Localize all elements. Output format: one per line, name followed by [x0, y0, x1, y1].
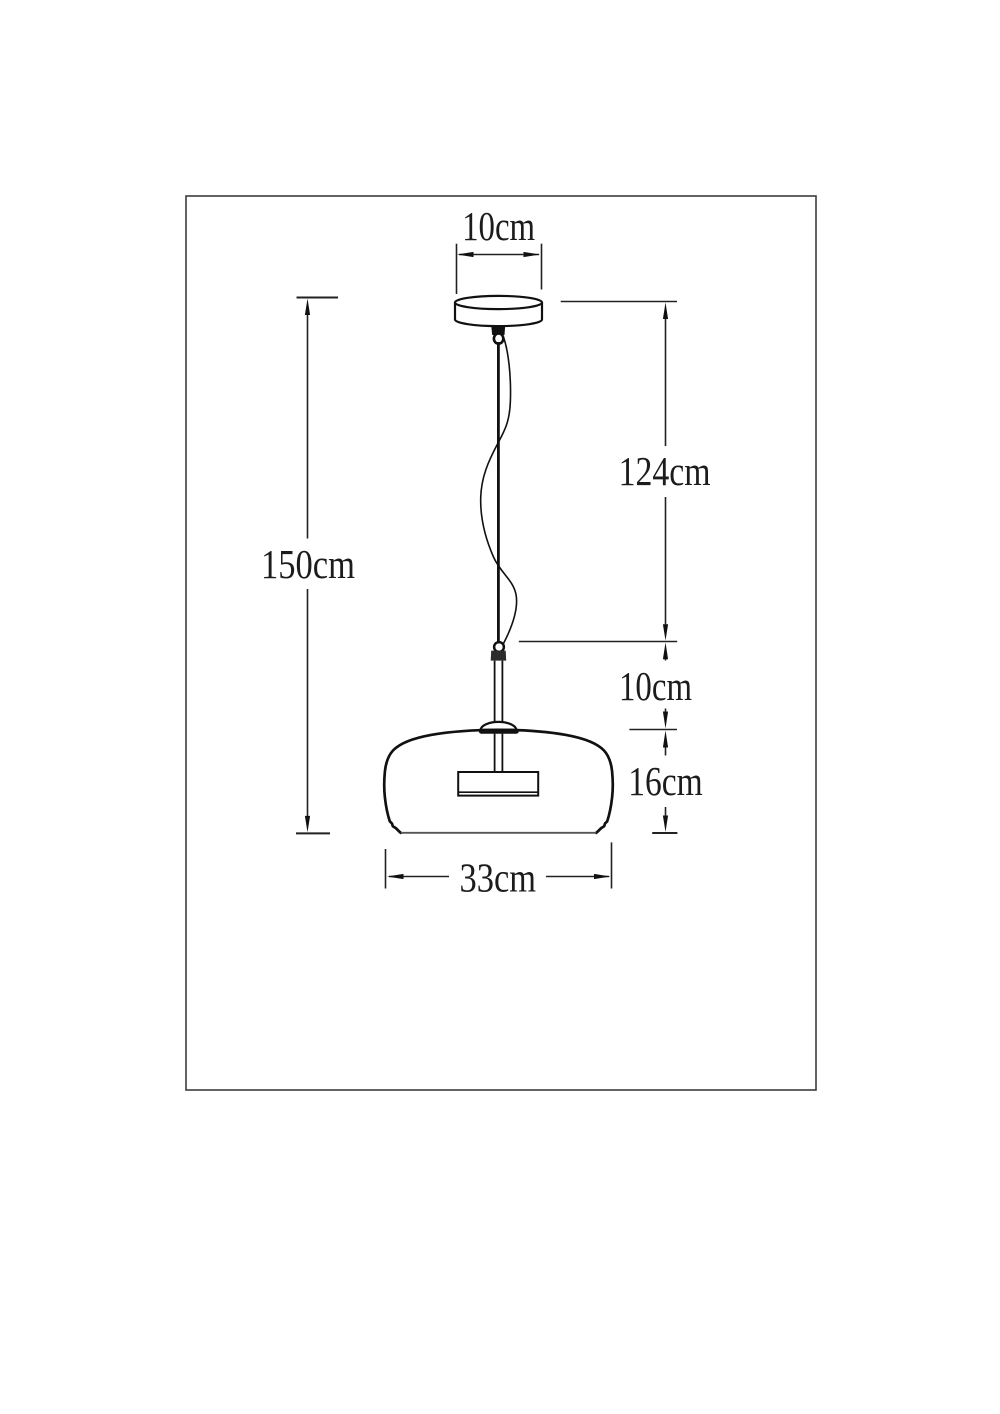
- dome cap on shade: [481, 722, 517, 731]
- bottom cord loop: [494, 642, 504, 652]
- dimension 10cm: dimension line with arrows: [459, 254, 539, 256]
- dimension 150cm: top tick: [297, 297, 339, 299]
- main suspension cable: [497, 342, 500, 645]
- dimension 16cm: lower arrow segment: [665, 807, 667, 816]
- dimension 16cm: upper arrow segment: [665, 746, 667, 756]
- canopy body (ceiling cup cylinder): [455, 296, 542, 326]
- dimension 124cm: arrows: [663, 303, 668, 320]
- dimension 150cm: arrows: [305, 299, 310, 316]
- svg-text:16cm: 16cm: [628, 758, 703, 804]
- svg-text:33cm: 33cm: [460, 855, 537, 901]
- dimension 33cm: dimension line segments: [389, 876, 609, 878]
- ferrule block (cord grip): [491, 651, 507, 661]
- dimension 10cm drop: upper arrow segment: [665, 656, 667, 661]
- stem rod upper (ferrule to dome cap): [495, 661, 503, 723]
- LED driver box: [458, 772, 538, 796]
- shade top aperture band (black): [479, 729, 519, 734]
- dimension 16cm: bottom tick: [652, 832, 677, 834]
- spiral electrical wire around cable: [481, 338, 517, 644]
- frame border: [186, 196, 816, 1090]
- svg-text:10cm: 10cm: [462, 203, 535, 249]
- top cord loop: [494, 334, 503, 344]
- dimension 10cm: extension lines: [457, 244, 542, 294]
- svg-text:150cm: 150cm: [261, 541, 355, 587]
- dimension 33cm: extension lines: [386, 842, 612, 888]
- dimension 10cm drop: lower arrow segment: [665, 709, 667, 714]
- lamp shade body fill: [384, 730, 612, 833]
- svg-text:124cm: 124cm: [619, 448, 711, 494]
- dimension 150cm: vertical line segments: [307, 312, 309, 820]
- lamp shade outline stroke: [384, 730, 612, 833]
- dimension 124cm: bottom reference line: [519, 641, 677, 643]
- dimension 150cm: bottom tick: [296, 832, 330, 834]
- svg-text:10cm: 10cm: [619, 663, 692, 709]
- shade bottom rim line: [401, 832, 596, 834]
- canopy stem connector (black): [491, 326, 505, 336]
- dimension 124cm: vertical line segments: [665, 316, 667, 628]
- LED box lip line: [458, 791, 538, 793]
- shade top reference line: [629, 729, 677, 731]
- dimension 33cm: arrows: [387, 874, 404, 879]
- stem rod lower (band to LED box): [495, 734, 503, 772]
- dimension 124cm: top reference line: [561, 301, 677, 303]
